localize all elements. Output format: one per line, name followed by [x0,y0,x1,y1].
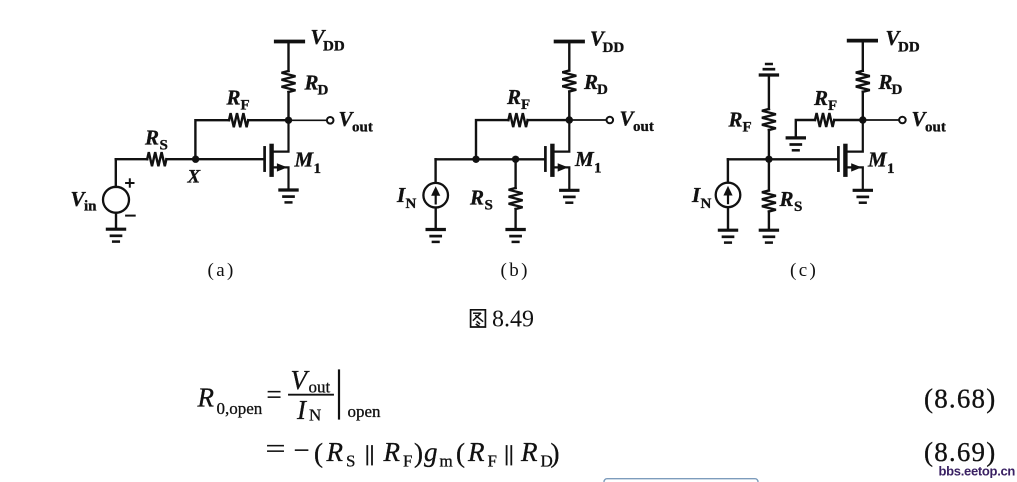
label RD (a) [304,71,329,99]
wire output lead (c) [863,119,899,121]
resistor RD (c) [856,71,870,92]
svg-text:S: S [346,452,355,471]
svg-text:): ) [414,438,423,468]
svg-text:F: F [488,452,497,471]
power rail VDD (a) [276,40,303,44]
wire VDD stem (a) [287,42,289,72]
label M1 (a) [294,148,322,178]
svg-text:M: M [867,148,888,172]
wire X to gate (a) [196,158,264,160]
wire RS to ground (b) [514,209,516,228]
wire RF right arm (b) [528,119,570,121]
svg-text:N: N [309,406,321,425]
label M1 (b) [574,147,602,177]
svg-text:R: R [506,85,521,109]
svg-text:S: S [485,198,493,214]
svg-text:(8.68): (8.68) [924,384,996,414]
svg-text:R: R [728,108,743,132]
label VDD (c) [886,26,920,56]
svg-text:D: D [892,82,903,98]
svg-text:N: N [701,196,712,212]
svg-text:I: I [296,395,308,425]
transistor M1 (b) [544,147,547,170]
wire RF left arm + down (b) [476,120,508,159]
label RF1 (c) [728,108,752,136]
wire RD to drain (c) [862,92,864,120]
svg-text:DD: DD [323,39,345,55]
wire RD to drain (b) [568,92,570,121]
resistor RD (b) [562,71,576,92]
node RS tap (b) [512,156,519,163]
wire output lead (a) [289,119,327,121]
current source IN (b) [423,183,448,208]
resistor RF1 (c) [762,109,776,130]
label RF (b) [506,85,530,113]
label RF (a) [226,86,250,114]
power rail VDD (c) [849,39,876,43]
eq1 denominator IN [296,395,321,425]
svg-text:M: M [294,148,315,172]
ground M1 (b) [561,189,578,192]
svg-text:out: out [352,120,373,136]
svg-text:R: R [304,71,319,95]
partial input box bottom [604,479,758,482]
wire gate row (c) [728,158,837,160]
wire gate row (b) [436,158,544,160]
ground RF2 (c) [787,136,804,139]
eq1 evaluation bar [338,371,340,419]
wire IN to ground (c) [727,207,729,228]
wire gndtop to RF1 (c) [768,75,770,109]
node gate (c) [765,156,772,163]
svg-text:−: − [294,435,310,465]
ground top of RF1 (c) [760,73,777,76]
svg-text:S: S [160,138,168,154]
svg-text:R: R [813,86,828,110]
svg-text:8.49: 8.49 [492,307,534,333]
label VDD (b) [590,27,624,57]
wire Vin to RS (a) [116,158,147,160]
ground IN (c) [719,229,736,232]
svg-text:X: X [187,167,202,188]
svg-text:m: m [440,452,453,471]
wire RD to drain (a) [287,92,289,120]
node drain (c) [859,116,866,123]
wire RF right arm (a) [248,119,288,121]
wire output lead (b) [569,119,606,121]
node drain (b) [566,116,573,123]
label RS (c) [779,187,803,215]
eq2 gm [424,437,453,471]
svg-text:F: F [743,120,752,136]
svg-text:S: S [794,199,802,215]
wire RF2 left arm + ground stem (c) [796,120,815,136]
svg-text:F: F [403,452,412,471]
svg-text:I: I [691,183,701,207]
eq2 RF2 [467,437,497,471]
wire RS stem (c) [768,159,770,190]
svg-text:N: N [406,196,417,212]
node drain (a) [285,117,292,124]
svg-text:open: open [348,402,382,421]
svg-text:D: D [597,82,608,98]
character tu (figure) [471,310,486,327]
resistor RD (a) [282,71,296,92]
wire RF1 to node (c) [768,130,770,159]
label IN (b) [396,183,417,212]
eq1 R0open [197,383,263,419]
svg-text:(a): (a) [208,260,236,281]
label RF2 (c) [813,86,837,114]
wire IN stem (b) [434,159,436,182]
wire RS to X (a) [166,158,195,160]
svg-text:(b): (b) [501,260,530,281]
svg-text:R: R [383,437,401,467]
svg-text:bbs.eetop.cn: bbs.eetop.cn [939,464,1016,479]
svg-text:in: in [84,199,97,215]
wire VDD stem (b) [568,42,570,71]
svg-text:DD: DD [603,40,625,56]
ground RS (b) [507,228,524,231]
resistor RF2 (c) [815,113,834,127]
svg-text:R: R [326,437,344,467]
label RD (c) [878,70,903,98]
ground RS (c) [760,229,777,232]
wire IN to ground (b) [435,208,437,228]
current source IN (c) [716,183,741,208]
svg-text:F: F [828,98,837,114]
transistor M1 (a) [263,147,266,170]
svg-text:(c): (c) [790,260,818,281]
wire RS stem (b) [514,159,516,188]
svg-text:1: 1 [887,161,895,177]
svg-text:F: F [241,98,250,114]
svg-text:R: R [520,437,538,467]
svg-text:(8.69): (8.69) [924,437,996,467]
terminal Vout (c) [899,117,906,124]
ground IN (b) [427,228,444,231]
svg-text:1: 1 [314,161,322,177]
wire Vin stem (a) [115,159,117,187]
svg-text:out: out [309,378,331,397]
svg-text:R: R [779,187,794,211]
svg-text:F: F [521,97,530,113]
minus sign Vin (a) [126,215,135,217]
wire RS to ground (c) [768,212,770,229]
svg-text:V: V [291,365,311,395]
label RD (b) [583,70,608,98]
svg-text:R: R [144,126,159,150]
label IN (c) [691,183,712,212]
resistor RS (c) [762,191,776,212]
svg-text:(: ( [314,438,323,468]
eq2 RD [520,437,553,471]
svg-text:R: R [197,383,215,413]
terminal Vout (a) [327,117,334,124]
svg-text:1: 1 [594,161,602,177]
plus sign Vin (a) [126,179,133,186]
source Vin (a) [103,187,129,213]
transistor M1 (c) [837,147,840,170]
power rail VDD (b) [556,40,583,44]
wire IN stem (c) [727,159,729,182]
svg-text:g: g [424,437,438,467]
label VDD (a) [311,25,345,55]
label RS (b) [469,186,493,214]
eq2 RS [326,437,356,471]
svg-text:R: R [226,86,241,110]
wire RF2 right arm (c) [834,119,863,121]
svg-text:0,open: 0,open [217,399,263,418]
wire RF left arm + down to X (a) [195,120,229,155]
label Vin (a) [71,187,98,215]
ground M1 (c) [854,189,871,192]
svg-text:R: R [467,437,485,467]
svg-text:out: out [925,120,946,136]
svg-text:=: = [267,380,282,410]
node RF tap (b) [472,156,479,163]
ground Vin (a) [107,228,124,231]
resistor RS (b) [509,188,523,209]
svg-text:=: = [266,434,286,464]
label RS (a) [144,126,168,154]
svg-text:D: D [318,83,329,99]
svg-text:(: ( [456,438,465,468]
resistor RS (a) [147,152,166,166]
svg-text:DD: DD [898,40,920,56]
eq2 RF [383,437,413,471]
svg-text:): ) [551,438,560,468]
node X (a) [192,156,199,163]
wire Vin to ground (a) [115,213,117,228]
ground M1 (a) [280,188,297,191]
svg-text:M: M [574,147,595,171]
label M1 (c) [867,148,895,178]
svg-text:R: R [583,70,598,94]
resistor RF (a) [229,113,248,127]
terminal Vout (b) [607,117,614,124]
svg-text:out: out [633,119,654,135]
eq2 parallel 2 [507,446,512,465]
label Vout (a) [339,107,373,136]
label Vout (b) [620,107,654,136]
svg-text:I: I [396,183,406,207]
eq1 fraction bar [289,394,333,396]
eq1 numerator Vout [291,365,331,397]
label Vout (c) [912,107,946,136]
wire VDD stem (c) [862,41,864,71]
eq2 parallel 1 [367,446,372,465]
svg-text:R: R [878,70,893,94]
svg-text:R: R [469,186,484,210]
resistor RF (b) [508,113,527,127]
